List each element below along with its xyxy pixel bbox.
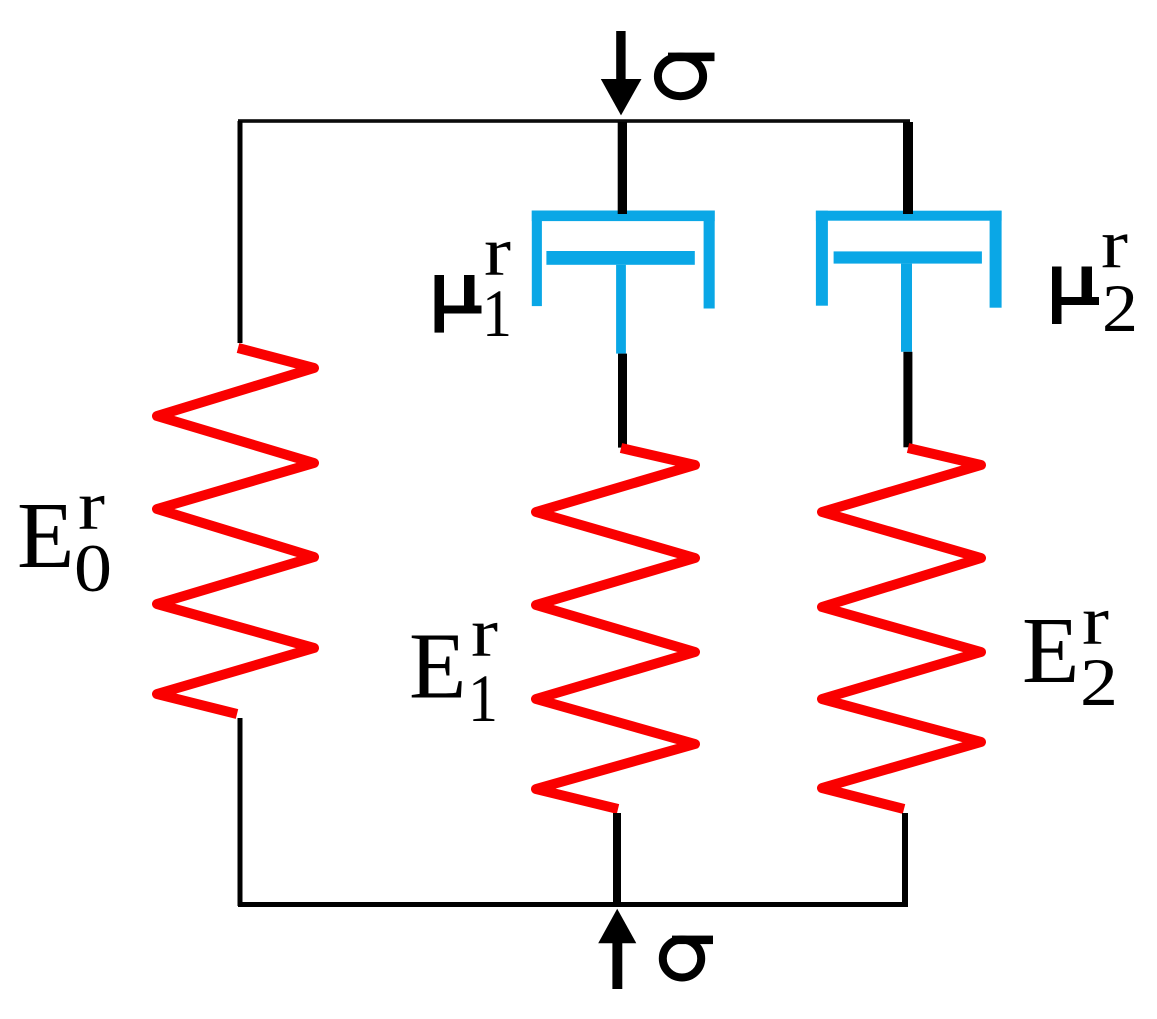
- label E0: [17, 468, 112, 606]
- svg-text:1: 1: [482, 275, 512, 351]
- wire left vertical top: [238, 121, 243, 343]
- dashpot mu2 piston: [834, 251, 982, 351]
- spring E2: [822, 448, 981, 809]
- spring E0: [157, 348, 314, 714]
- stress arrow bottom: [598, 909, 636, 989]
- svg-text:2: 2: [1080, 644, 1118, 720]
- label E2: [1022, 583, 1118, 720]
- dashpot mu1 piston: [546, 251, 694, 354]
- wire middle vertical bottom: [613, 813, 621, 907]
- wire left vertical bottom: [238, 718, 243, 906]
- svg-text:E: E: [409, 615, 466, 719]
- label sigma top: [658, 53, 715, 97]
- label sigma bottom: [663, 936, 713, 978]
- label mu2: [1052, 207, 1138, 347]
- wire rod below dashpot mu1: [618, 354, 627, 448]
- wire right vertical bottom: [902, 813, 908, 906]
- wire middle vertical top: [618, 122, 627, 214]
- wire right vertical top: [903, 122, 913, 214]
- wire bottom rail: [238, 902, 908, 907]
- svg-text:E: E: [17, 484, 74, 588]
- label E1: [409, 595, 498, 736]
- spring E1: [536, 448, 695, 809]
- dashpot mu1 cylinder: [532, 211, 715, 309]
- svg-text:1: 1: [468, 660, 498, 736]
- stress arrow top: [601, 31, 642, 115]
- svg-text:0: 0: [74, 530, 112, 606]
- label mu1: [435, 214, 513, 351]
- wire top rail: [238, 119, 910, 123]
- svg-text:E: E: [1022, 599, 1079, 703]
- svg-text:2: 2: [1102, 270, 1138, 346]
- wire rod below dashpot mu2: [903, 352, 912, 448]
- dashpot mu2 cylinder: [816, 211, 1002, 308]
